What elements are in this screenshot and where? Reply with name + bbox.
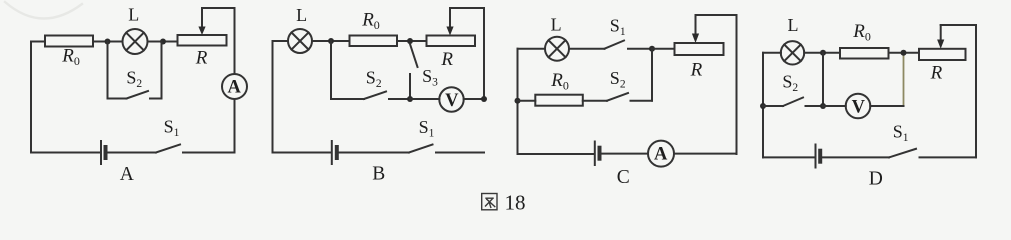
wire: C lower branch left segment — [518, 100, 536, 102]
svg-text:V: V — [852, 97, 866, 117]
svg-text:R0: R0 — [550, 70, 569, 93]
wire: D branch to voltmeter — [823, 105, 846, 107]
node junction C1 — [515, 98, 521, 104]
wire: A top loop to right — [202, 8, 235, 74]
svg-text:S1: S1 — [164, 117, 180, 140]
wire: A right vertical below ammeter — [234, 99, 236, 153]
svg-text:A: A — [228, 78, 242, 98]
wire: C bottom right segment — [674, 153, 737, 155]
resistor R0 (circuit A) — [45, 36, 93, 47]
wire: S2 branch left vertical (circuit A) — [107, 42, 109, 99]
battery (circuit A) — [101, 141, 106, 164]
wire: B left vertical — [272, 41, 274, 153]
voltmeter V (circuit D) — [846, 94, 871, 119]
svg-text:S1: S1 — [893, 122, 909, 145]
wire: C lower branch right vertical up to C2 — [651, 49, 653, 101]
svg-text:S2: S2 — [610, 68, 626, 91]
svg-text:R: R — [930, 62, 943, 83]
switch S1 (circuit D) — [889, 149, 976, 158]
battery (circuit C) — [595, 142, 600, 166]
switch S2 (circuit D) — [763, 98, 823, 107]
wire: S2 branch right vertical (circuit A) — [161, 42, 163, 99]
switch S1 (circuit C) — [605, 41, 653, 49]
wire: B middle branch left horizontal — [331, 98, 364, 100]
wire: D lamp to R0 — [804, 52, 840, 54]
node junction A2 — [160, 39, 166, 45]
node junction D1 — [820, 50, 826, 56]
wire: B top left segment — [273, 40, 289, 42]
svg-text:C: C — [617, 167, 630, 188]
svg-text:R0: R0 — [61, 45, 80, 68]
rheostat R body (circuit C) — [675, 43, 724, 55]
lamp L (circuit D) — [781, 41, 804, 64]
wire: A between R0 and lamp — [93, 41, 123, 43]
node junction A1 — [105, 39, 111, 45]
lamp L (circuit C) — [545, 37, 569, 61]
svg-text:R0: R0 — [361, 10, 380, 33]
wire: B bottom left segment — [273, 152, 331, 154]
svg-text:D: D — [869, 168, 883, 189]
svg-text:S3: S3 — [422, 66, 438, 89]
svg-text:S2: S2 — [366, 67, 382, 90]
svg-text:18: 18 — [505, 191, 526, 215]
rheostat wiper arrow (circuit C) — [692, 15, 699, 43]
wire: B middle branch vertical from B1 — [330, 41, 332, 99]
rheostat R body (circuit D) — [919, 49, 966, 60]
battery (circuit D) — [816, 145, 821, 168]
wire: D left vertical — [762, 53, 764, 158]
svg-text:L: L — [296, 5, 307, 25]
wire: B R0 to rheostat — [397, 40, 427, 42]
switch S1 (circuit A) — [156, 145, 235, 153]
lamp L (circuit A) — [123, 29, 148, 54]
wire: D voltmeter to olive vertical — [870, 105, 903, 107]
wire: C junction to rheostat — [652, 48, 675, 50]
ammeter A (circuit A) — [222, 74, 247, 99]
svg-text:R: R — [690, 60, 703, 81]
wire: B voltmeter to right vertical — [464, 98, 484, 100]
wire: C top branch left segment — [518, 48, 546, 50]
wire: B bottom middle segment — [339, 152, 409, 154]
svg-text:V: V — [445, 91, 459, 111]
svg-text:S2: S2 — [782, 72, 798, 95]
battery (circuit B) — [332, 141, 337, 164]
wire: C R0 to switch S2 — [583, 100, 607, 102]
wire: D olive vertical from D2 to V branch — [903, 53, 905, 106]
wire: D top left segment — [763, 52, 781, 54]
wire: C bottom middle segment — [602, 153, 648, 155]
wire: D top loop to right — [941, 25, 976, 157]
rheostat wiper arrow (circuit D) — [937, 25, 944, 49]
wire: A bottom left segment — [31, 152, 100, 154]
node junction D4 — [820, 103, 826, 109]
wire: B lamp to R0 — [312, 40, 350, 42]
switch S3 (circuit B) — [410, 44, 418, 99]
node junction D2 — [901, 50, 907, 56]
node junction B1 — [328, 38, 334, 44]
svg-text:A: A — [654, 145, 668, 165]
wire: C top loop to right — [696, 15, 737, 154]
ammeter A (circuit C) — [648, 141, 674, 167]
wire: A between lamp and rheostat — [148, 41, 178, 43]
svg-text:R0: R0 — [852, 21, 871, 44]
switch S2 (circuit C) — [607, 93, 652, 101]
svg-text:A: A — [120, 164, 134, 185]
wire: A left vertical — [30, 42, 32, 153]
node junction D3 — [760, 103, 766, 109]
rheostat wiper arrow (circuit A) — [198, 8, 205, 35]
svg-text:R: R — [195, 47, 208, 68]
switch S2 (circuit B) — [364, 92, 410, 100]
wire: D R0 to rheostat — [889, 52, 920, 54]
lamp L (circuit B) — [288, 29, 312, 53]
svg-text:L: L — [551, 15, 562, 35]
wire: D bottom left segment — [763, 156, 814, 158]
resistor R0 (circuit B) — [350, 36, 398, 47]
resistor R0 (circuit C) — [535, 95, 583, 106]
scan artifact arc top-left — [5, 2, 82, 19]
wire: B middle branch to voltmeter — [410, 98, 439, 100]
svg-text:S1: S1 — [610, 15, 626, 38]
wire: C left vertical — [517, 49, 519, 154]
switch S1 (circuit B) — [409, 145, 484, 153]
wire: D bottom middle segment — [822, 156, 889, 158]
svg-text:B: B — [372, 164, 385, 185]
resistor R0 (circuit D) — [840, 48, 889, 59]
wire: C bottom left segment — [518, 153, 594, 155]
svg-text:S2: S2 — [126, 67, 142, 90]
caption 图 (drawn glyph) — [482, 194, 497, 210]
wire: C lamp to switch S1 — [569, 48, 605, 50]
switch S2 (circuit A) — [108, 91, 162, 99]
wire: D vertical from D1 to S2 branch — [822, 53, 824, 106]
node junction B2 (S3 top) — [407, 38, 413, 44]
svg-text:R: R — [440, 49, 453, 70]
voltmeter V (circuit B) — [439, 87, 463, 111]
wire: B top loop to right — [450, 8, 484, 99]
rheostat R body (circuit B) — [427, 36, 476, 47]
node junction B3 (S3 bottom) — [407, 96, 413, 102]
svg-text:L: L — [128, 5, 139, 25]
wire: A bottom middle segment — [108, 152, 157, 154]
node junction C2 — [649, 46, 655, 52]
svg-text:L: L — [788, 15, 799, 35]
rheostat wiper arrow (circuit B) — [446, 8, 453, 36]
wire: A top left segment — [31, 41, 45, 43]
rheostat R body (circuit A) — [178, 35, 227, 46]
node junction B4 — [481, 96, 487, 102]
svg-text:S1: S1 — [419, 117, 435, 140]
